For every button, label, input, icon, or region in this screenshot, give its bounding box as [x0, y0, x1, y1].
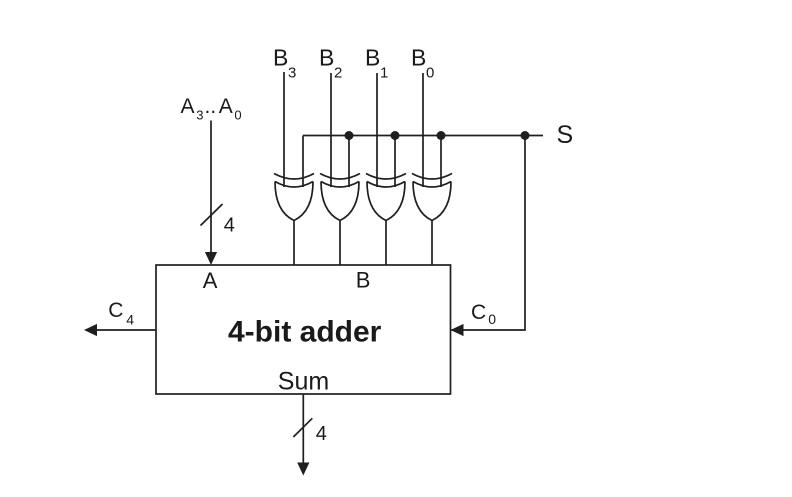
svg-text:4: 4 — [224, 215, 235, 237]
wire B1 to XOR3 — [376, 73, 378, 187]
svg-text:A: A — [203, 268, 218, 293]
svg-text:Sum: Sum — [278, 368, 329, 396]
label 4 (Sum bus width) — [316, 423, 327, 445]
wire B3 to XOR1 — [283, 72, 285, 187]
svg-text:0: 0 — [488, 311, 496, 327]
arrowhead C0 into adder — [451, 324, 464, 336]
xor gate 3 (B1) — [366, 174, 406, 221]
bus Sum output wire — [302, 394, 304, 464]
label B3 — [273, 45, 296, 82]
wire XOR2 output to adder — [339, 221, 341, 266]
label C0 — [471, 301, 496, 327]
svg-text:1: 1 — [380, 64, 388, 81]
svg-text:0: 0 — [426, 64, 434, 81]
label B port — [356, 268, 371, 293]
wire S to XOR1 right input — [302, 136, 304, 188]
svg-text:C: C — [471, 301, 486, 324]
svg-text:B: B — [411, 45, 426, 71]
svg-text:A: A — [219, 95, 233, 118]
arrowhead C4 — [84, 324, 97, 336]
wire B2 to XOR2 — [330, 73, 332, 187]
wire C4 output — [96, 329, 156, 331]
svg-text:B: B — [356, 268, 371, 293]
xor gate 2 (B2) — [320, 174, 360, 221]
junction dot S/XOR4 — [437, 131, 446, 140]
xor gate 4 (B0) — [412, 174, 452, 221]
svg-text:0: 0 — [234, 108, 241, 123]
bus slash Sum — [293, 418, 312, 437]
arrowhead A into adder — [205, 252, 217, 265]
label S — [557, 121, 574, 149]
label A port — [203, 268, 218, 293]
wire S to XOR3 right input — [394, 136, 396, 188]
label B1 — [365, 45, 388, 82]
svg-text:3: 3 — [196, 108, 203, 123]
svg-text:4: 4 — [316, 423, 327, 445]
wire XOR1 output to adder — [293, 221, 295, 266]
junction dot S/XOR3 — [391, 131, 400, 140]
wire B0 to XOR4 — [422, 73, 424, 187]
wire XOR4 output to adder — [431, 221, 433, 266]
label B2 — [319, 45, 342, 82]
svg-text:4: 4 — [126, 312, 134, 328]
label 4-bit adder — [228, 315, 382, 348]
svg-text:B: B — [319, 45, 334, 71]
bus slash A — [201, 204, 223, 226]
svg-text:2: 2 — [334, 64, 342, 81]
junction dot S/C0 branch — [521, 131, 530, 140]
wire S down to C0 — [452, 136, 526, 331]
svg-text:4-bit adder: 4-bit adder — [228, 315, 382, 348]
svg-text:B: B — [273, 45, 288, 71]
wire S to XOR4 right input — [440, 136, 442, 188]
svg-text:C: C — [108, 299, 123, 322]
svg-text:..: .. — [205, 95, 217, 118]
junction dot S/XOR2 — [345, 131, 354, 140]
wire XOR3 output to adder — [385, 221, 387, 266]
wire S to XOR2 right input — [348, 136, 350, 188]
xor gate 1 (B3) — [274, 174, 314, 221]
bus A wire — [210, 121, 212, 255]
svg-text:S: S — [557, 121, 574, 149]
svg-text:B: B — [365, 45, 380, 71]
svg-text:A: A — [181, 95, 195, 118]
label B0 — [411, 45, 434, 82]
4-bit adder block — [156, 265, 451, 394]
arrowhead Sum — [297, 463, 309, 476]
label Sum — [278, 368, 329, 396]
label 4 (A bus width) — [224, 215, 235, 237]
label C4 — [108, 299, 134, 328]
net S horizontal wire — [303, 135, 543, 137]
svg-text:3: 3 — [288, 64, 296, 81]
label A3..A0 — [181, 95, 242, 122]
